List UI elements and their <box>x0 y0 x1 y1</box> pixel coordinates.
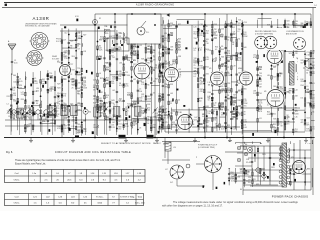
svg-text:R14: R14 <box>300 85 303 87</box>
svg-text:L9: L9 <box>50 103 52 105</box>
svg-text:C18: C18 <box>158 63 161 65</box>
svg-text:C29: C29 <box>93 80 96 82</box>
svg-text:T41: T41 <box>259 93 262 95</box>
svg-text:50: 50 <box>244 114 246 116</box>
svg-text:S34: S34 <box>237 176 240 178</box>
svg-text:MR1: MR1 <box>256 184 259 186</box>
svg-text:T18: T18 <box>233 95 236 97</box>
svg-text:T3: T3 <box>248 172 250 174</box>
svg-text:0.01: 0.01 <box>34 83 37 85</box>
svg-text:L44: L44 <box>295 90 298 92</box>
svg-text:100: 100 <box>36 90 39 92</box>
svg-text:C37: C37 <box>143 117 146 119</box>
svg-text:10: 10 <box>214 105 216 107</box>
svg-text:L32: L32 <box>133 79 136 81</box>
svg-text:R36: R36 <box>127 60 130 62</box>
svg-text:32+32: 32+32 <box>246 162 251 164</box>
svg-text:25: 25 <box>194 50 196 52</box>
svg-text:S5: S5 <box>99 46 101 48</box>
svg-text:T10: T10 <box>232 55 235 57</box>
svg-text:470: 470 <box>259 109 262 111</box>
svg-text:25: 25 <box>238 25 240 27</box>
svg-text:L49: L49 <box>112 90 115 92</box>
svg-text:L23: L23 <box>194 27 197 29</box>
svg-text:T3: T3 <box>70 74 72 76</box>
svg-text:100: 100 <box>139 100 142 102</box>
svg-text:100: 100 <box>139 91 142 93</box>
svg-text:SUBJECT TO ALTERATION WITHOUT: SUBJECT TO ALTERATION WITHOUT NOTICE <box>101 142 151 145</box>
svg-text:R21: R21 <box>72 121 75 123</box>
svg-text:S6: S6 <box>221 37 223 39</box>
svg-text:S37: S37 <box>158 46 161 48</box>
svg-text:Export Models, see Parts List.: Export Models, see Parts List. <box>15 163 46 166</box>
svg-text:25: 25 <box>56 116 58 118</box>
svg-text:Total: Total <box>137 196 142 199</box>
svg-text:0.05: 0.05 <box>238 60 241 62</box>
svg-text:0.05: 0.05 <box>19 81 22 83</box>
svg-text:L8: L8 <box>94 105 96 107</box>
svg-text:R5: R5 <box>147 84 149 86</box>
svg-text:L17: L17 <box>64 126 67 128</box>
svg-text:L45: L45 <box>112 57 115 59</box>
svg-text:L33: L33 <box>119 62 122 64</box>
svg-text:V1: V1 <box>57 61 59 63</box>
svg-text:470: 470 <box>248 182 251 184</box>
svg-text:0.05: 0.05 <box>200 68 203 70</box>
svg-text:C4: C4 <box>227 95 229 97</box>
svg-text:S25: S25 <box>70 41 73 43</box>
svg-text:T42: T42 <box>227 61 230 63</box>
svg-text:R41: R41 <box>118 117 121 119</box>
svg-text:0.05: 0.05 <box>125 86 128 88</box>
svg-text:0.01: 0.01 <box>244 127 247 129</box>
svg-text:600 + 150: 600 + 150 <box>135 203 145 205</box>
svg-text:R37: R37 <box>105 80 108 82</box>
svg-text:L45: L45 <box>170 93 173 95</box>
svg-text:C53: C53 <box>306 118 309 120</box>
svg-text:T34: T34 <box>194 38 197 40</box>
svg-text:470: 470 <box>200 35 203 37</box>
svg-text:S26: S26 <box>147 104 150 106</box>
svg-text:V2: V2 <box>133 60 135 62</box>
svg-text:C56: C56 <box>221 103 224 105</box>
svg-text:C28: C28 <box>227 83 230 85</box>
svg-text:0.05: 0.05 <box>233 129 236 131</box>
svg-text:10: 10 <box>259 69 261 71</box>
svg-text:R4: R4 <box>28 118 30 120</box>
svg-text:L5: L5 <box>280 87 282 89</box>
svg-text:T40: T40 <box>78 109 81 111</box>
svg-text:100: 100 <box>112 79 115 81</box>
svg-text:AND SOCKET: AND SOCKET <box>286 32 297 35</box>
svg-text:L27: L27 <box>63 40 66 42</box>
svg-text:100: 100 <box>19 87 22 89</box>
svg-text:These are typical figures; the: These are typical figures; the resistanc… <box>15 159 121 162</box>
svg-text:10: 10 <box>200 50 202 52</box>
svg-text:25: 25 <box>232 119 234 121</box>
svg-text:T27: T27 <box>273 76 276 78</box>
svg-text:S37: S37 <box>141 59 144 61</box>
svg-text:T45: T45 <box>77 94 80 96</box>
svg-text:L6: L6 <box>133 125 135 127</box>
svg-text:C14: C14 <box>164 33 167 35</box>
svg-text:0.05: 0.05 <box>221 129 224 131</box>
svg-text:PAGE 2: PAGE 2 <box>153 142 161 145</box>
svg-text:R44: R44 <box>63 79 66 81</box>
svg-text:0.01: 0.01 <box>133 121 136 123</box>
svg-text:10: 10 <box>70 48 72 50</box>
svg-text:0.05: 0.05 <box>231 180 234 182</box>
svg-text:L2: L2 <box>17 106 19 108</box>
svg-text:R4: R4 <box>106 103 108 105</box>
svg-text:S7: S7 <box>300 26 302 28</box>
svg-text:0.05: 0.05 <box>273 66 276 68</box>
svg-text:R36: R36 <box>153 127 156 129</box>
svg-text:0.1: 0.1 <box>194 76 196 78</box>
svg-text:S16: S16 <box>206 73 209 75</box>
svg-text:R8: R8 <box>56 103 58 105</box>
svg-text:C20: C20 <box>221 29 224 31</box>
svg-text:C38: C38 <box>170 47 173 49</box>
svg-text:Ohms: Ohms <box>14 203 20 205</box>
svg-text:POWER PACK CHASSIS: POWER PACK CHASSIS <box>272 194 308 198</box>
svg-text:T47: T47 <box>214 37 217 39</box>
svg-text:C36: C36 <box>119 33 122 35</box>
svg-text:C53: C53 <box>244 22 247 24</box>
svg-text:25: 25 <box>212 113 214 115</box>
svg-text:S24: S24 <box>83 77 86 79</box>
svg-text:R4: R4 <box>124 121 126 123</box>
svg-text:0.05: 0.05 <box>100 39 103 41</box>
svg-text:C42: C42 <box>13 81 16 83</box>
svg-text:S24: S24 <box>214 127 217 129</box>
svg-text:L9: L9 <box>306 86 308 88</box>
svg-text:S55: S55 <box>244 89 247 91</box>
svg-text:R52: R52 <box>100 78 103 80</box>
svg-text:C37: C37 <box>259 81 262 83</box>
svg-text:0.05: 0.05 <box>72 84 75 86</box>
svg-text:10: 10 <box>118 50 120 52</box>
svg-text:VT138: VT138 <box>176 112 182 114</box>
svg-text:L13: L13 <box>134 104 137 106</box>
svg-text:T19: T19 <box>77 68 80 70</box>
svg-text:S40: S40 <box>244 47 247 49</box>
svg-text:L2: L2 <box>238 31 240 33</box>
svg-text:S38: S38 <box>206 106 209 108</box>
svg-text:T45: T45 <box>306 102 309 104</box>
svg-text:C54: C54 <box>248 177 251 179</box>
svg-text:T5: T5 <box>153 56 155 58</box>
svg-text:470: 470 <box>93 98 96 100</box>
svg-text:C9: C9 <box>78 49 80 51</box>
svg-text:C29: C29 <box>153 116 156 118</box>
svg-text:0.01: 0.01 <box>312 101 315 103</box>
svg-text:A138R RADIO-GRAMOPHONE: A138R RADIO-GRAMOPHONE <box>136 4 174 7</box>
svg-text:L29: L29 <box>13 87 16 89</box>
svg-text:S2: S2 <box>99 18 101 20</box>
svg-text:T40: T40 <box>78 83 81 85</box>
svg-text:0.01: 0.01 <box>77 74 80 76</box>
svg-text:L15: L15 <box>118 36 121 38</box>
svg-text:Coil: Coil <box>15 197 19 199</box>
svg-text:L5: L5 <box>83 121 85 123</box>
svg-text:T48: T48 <box>295 95 298 97</box>
svg-text:with other line diagrams are o: with other line diagrams are on pages 11… <box>162 205 223 208</box>
svg-text:S19: S19 <box>227 57 230 59</box>
svg-text:100: 100 <box>206 122 209 124</box>
svg-text:R20: R20 <box>105 69 108 71</box>
svg-text:100: 100 <box>147 110 150 112</box>
svg-text:L31: L31 <box>139 45 142 47</box>
svg-text:L47: L47 <box>194 117 197 119</box>
svg-text:R27: R27 <box>83 34 86 36</box>
svg-text:C10: C10 <box>127 95 130 97</box>
svg-text:T39: T39 <box>164 61 167 63</box>
svg-text:SHOWING No. IN DIAGRAM: SHOWING No. IN DIAGRAM <box>25 25 50 28</box>
svg-text:470: 470 <box>200 91 203 93</box>
svg-text:R38: R38 <box>170 49 173 51</box>
svg-text:50: 50 <box>289 93 291 95</box>
svg-text:C14: C14 <box>104 115 107 117</box>
svg-text:470: 470 <box>172 63 175 65</box>
svg-text:0.01: 0.01 <box>14 62 18 64</box>
svg-text:S37: S37 <box>273 118 276 120</box>
svg-text:L33: L33 <box>72 126 75 128</box>
svg-text:C15: C15 <box>158 54 161 56</box>
svg-text:470: 470 <box>118 129 121 131</box>
svg-text:R20: R20 <box>57 87 60 89</box>
svg-text:C2: C2 <box>227 67 229 69</box>
svg-text:R40: R40 <box>273 86 276 88</box>
svg-text:0.1: 0.1 <box>13 90 15 92</box>
svg-text:C50: C50 <box>172 111 175 113</box>
svg-text:Fig. 6.: Fig. 6. <box>6 151 13 154</box>
svg-text:S17: S17 <box>221 35 224 37</box>
svg-text:S25: S25 <box>133 45 136 47</box>
svg-text:50: 50 <box>200 100 202 102</box>
svg-text:L14: L14 <box>109 36 112 38</box>
svg-text:25: 25 <box>170 103 172 105</box>
svg-text:T15: T15 <box>244 106 247 108</box>
svg-text:& SOCKET (SEE PINS): & SOCKET (SEE PINS) <box>255 33 273 35</box>
svg-text:R37: R37 <box>105 83 108 85</box>
svg-text:R11: R11 <box>39 119 42 121</box>
svg-text:T26: T26 <box>238 20 241 22</box>
svg-text:25: 25 <box>194 65 196 67</box>
svg-text:T1 Sec.: T1 Sec. <box>96 197 104 199</box>
svg-text:0.01: 0.01 <box>178 47 181 49</box>
svg-text:50: 50 <box>36 103 38 105</box>
svg-text:S4: S4 <box>240 189 242 191</box>
svg-text:R50: R50 <box>21 99 24 101</box>
svg-text:0.01: 0.01 <box>42 116 45 118</box>
svg-text:T40: T40 <box>141 108 144 110</box>
svg-text:L6: L6 <box>99 73 101 75</box>
svg-text:T4: T4 <box>238 39 240 41</box>
svg-text:L6: L6 <box>113 105 115 107</box>
svg-text:L8: L8 <box>190 115 192 117</box>
svg-text:CIRCUIT DIAGRAM AND COIL RESIS: CIRCUIT DIAGRAM AND COIL RESISTANCE TABL… <box>55 150 131 154</box>
svg-text:0.01: 0.01 <box>267 114 270 116</box>
svg-text:10: 10 <box>200 80 202 82</box>
svg-text:0.01: 0.01 <box>206 59 209 61</box>
svg-text:0.01: 0.01 <box>147 48 150 50</box>
svg-text:470: 470 <box>227 92 230 94</box>
svg-text:10: 10 <box>221 109 223 111</box>
svg-text:0.1: 0.1 <box>106 97 108 99</box>
svg-text:L8: L8 <box>214 34 216 36</box>
svg-text:S21: S21 <box>289 53 292 55</box>
svg-text:0.01: 0.01 <box>119 85 122 87</box>
svg-text:Ohms: Ohms <box>14 179 20 181</box>
svg-text:50: 50 <box>27 127 29 129</box>
svg-text:L56: L56 <box>267 75 270 77</box>
svg-text:S44: S44 <box>13 75 16 77</box>
svg-text:L46: L46 <box>200 61 203 63</box>
svg-text:L39: L39 <box>233 66 236 68</box>
svg-text:R5: R5 <box>221 46 223 48</box>
svg-text:C54: C54 <box>246 159 249 161</box>
svg-text:S53: S53 <box>72 56 75 58</box>
svg-text:L2: L2 <box>71 104 73 106</box>
svg-text:0.01: 0.01 <box>307 168 310 170</box>
svg-text:S20: S20 <box>200 84 203 86</box>
svg-text:R48: R48 <box>178 49 181 51</box>
svg-text:R26: R26 <box>105 62 108 64</box>
svg-text:SOCKET: SOCKET <box>56 41 64 43</box>
svg-text:T2 E.H.T. Wdg.: T2 E.H.T. Wdg. <box>120 197 135 199</box>
svg-text:T4: T4 <box>153 92 155 94</box>
svg-text:T27: T27 <box>106 39 109 41</box>
svg-text:100: 100 <box>147 51 150 53</box>
svg-text:L11: L11 <box>259 118 262 120</box>
svg-text:0.05: 0.05 <box>202 116 205 118</box>
svg-text:R27: R27 <box>155 79 158 81</box>
svg-text:V4: V4 <box>209 68 211 70</box>
svg-text:50: 50 <box>279 75 281 77</box>
svg-text:S8: S8 <box>232 42 234 44</box>
svg-text:470: 470 <box>63 96 66 98</box>
svg-text:470: 470 <box>286 117 289 119</box>
svg-text:100: 100 <box>170 35 173 37</box>
svg-text:S9: S9 <box>280 126 282 128</box>
svg-text:0.1: 0.1 <box>153 52 155 54</box>
svg-text:25: 25 <box>77 46 79 48</box>
svg-text:L18: L18 <box>83 51 86 53</box>
svg-text:S46: S46 <box>221 56 224 58</box>
svg-text:0.1: 0.1 <box>215 49 217 51</box>
svg-text:S4: S4 <box>245 144 247 146</box>
svg-text:L51: L51 <box>300 98 303 100</box>
svg-text:0.05: 0.05 <box>158 111 161 113</box>
svg-text:R52: R52 <box>194 33 197 35</box>
svg-text:C18: C18 <box>238 106 241 108</box>
svg-text:0.1: 0.1 <box>141 96 143 98</box>
svg-text:R51: R51 <box>7 96 10 98</box>
svg-text:T3: T3 <box>238 91 240 93</box>
svg-text:0.1: 0.1 <box>164 40 166 42</box>
svg-text:T27: T27 <box>70 64 73 66</box>
svg-text:S4: S4 <box>89 112 91 114</box>
svg-text:T53: T53 <box>27 114 30 116</box>
svg-text:S54: S54 <box>306 92 309 94</box>
svg-text:50: 50 <box>215 60 217 62</box>
svg-text:50: 50 <box>56 110 58 112</box>
svg-text:L4: L4 <box>7 103 9 105</box>
svg-text:470: 470 <box>286 123 289 125</box>
svg-text:470: 470 <box>259 75 262 77</box>
svg-text:0.01: 0.01 <box>119 101 122 103</box>
svg-text:L47: L47 <box>112 122 115 124</box>
svg-text:25: 25 <box>221 66 223 68</box>
svg-text:C10: C10 <box>206 43 209 45</box>
svg-text:C38: C38 <box>178 56 181 58</box>
svg-text:L51: L51 <box>119 73 122 75</box>
svg-text:0.01: 0.01 <box>306 131 309 133</box>
svg-text:C2: C2 <box>178 100 180 102</box>
svg-text:R43: R43 <box>111 100 114 102</box>
svg-text:C41: C41 <box>13 100 16 102</box>
svg-text:L8: L8 <box>139 127 141 129</box>
svg-text:50: 50 <box>306 72 308 74</box>
svg-text:470: 470 <box>206 33 209 35</box>
svg-text:0.01: 0.01 <box>118 123 121 125</box>
svg-text:S24: S24 <box>286 20 289 22</box>
svg-text:0.05: 0.05 <box>50 122 53 124</box>
svg-text:L5: L5 <box>61 103 63 105</box>
svg-text:S29: S29 <box>170 84 173 86</box>
svg-text:25: 25 <box>72 87 74 89</box>
svg-text:470: 470 <box>83 80 86 82</box>
svg-text:Coil: Coil <box>15 173 19 175</box>
svg-text:V3: V3 <box>163 64 165 66</box>
svg-text:MR1: MR1 <box>252 179 256 181</box>
svg-text:S21: S21 <box>273 113 276 115</box>
svg-text:R29: R29 <box>57 83 60 85</box>
svg-text:C38: C38 <box>8 116 11 118</box>
svg-text:L24: L24 <box>173 147 176 149</box>
svg-text:S23: S23 <box>194 119 197 121</box>
svg-text:1000: 1000 <box>97 203 103 205</box>
svg-text:T1: T1 <box>296 58 298 60</box>
svg-text:L45: L45 <box>295 117 298 119</box>
svg-text:MAINS: MAINS <box>163 143 169 146</box>
svg-text:SOCKET: SOCKET <box>52 58 60 60</box>
svg-text:R38: R38 <box>238 100 241 102</box>
svg-text:(LOOKING AT PINS): (LOOKING AT PINS) <box>198 146 215 149</box>
svg-text:P.U.: P.U. <box>146 32 150 34</box>
svg-text:S43: S43 <box>221 49 224 51</box>
svg-text:C19: C19 <box>111 108 114 110</box>
svg-text:T6: T6 <box>206 26 208 28</box>
svg-text:C26: C26 <box>208 50 211 52</box>
svg-text:L50: L50 <box>127 75 130 77</box>
svg-text:0.05: 0.05 <box>158 100 161 102</box>
svg-text:0.1: 0.1 <box>233 27 235 29</box>
svg-text:0.05: 0.05 <box>194 62 197 64</box>
svg-text:V6: V6 <box>264 91 266 93</box>
svg-text:A138R: A138R <box>33 16 50 21</box>
svg-text:R40: R40 <box>208 92 211 94</box>
svg-text:T45: T45 <box>133 54 136 56</box>
svg-text:0.05: 0.05 <box>77 105 80 107</box>
svg-text:C12: C12 <box>64 32 67 34</box>
svg-text:0.05: 0.05 <box>231 114 234 116</box>
svg-text:L8: L8 <box>232 44 234 46</box>
svg-text:R37: R37 <box>72 69 75 71</box>
